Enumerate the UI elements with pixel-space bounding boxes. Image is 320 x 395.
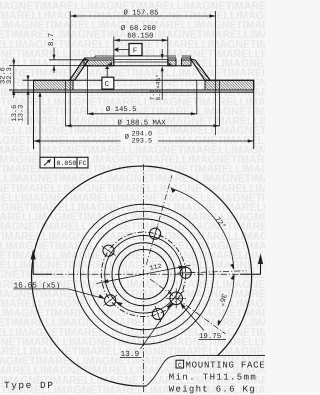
- section wing top line: [23, 79, 254, 81]
- svg-text:Ø: Ø: [125, 134, 129, 142]
- hat top plate right (hatched, bolt hole gap): [168, 58, 191, 66]
- dimension 8.7: [48, 33, 56, 73]
- type label: [4, 380, 54, 391]
- svg-text:72°: 72°: [213, 216, 227, 231]
- chamfer note 7.0/6.5x45: [149, 49, 164, 101]
- svg-text:Ø 145.5: Ø 145.5: [106, 106, 137, 114]
- dimension 13.6/13.3: [11, 75, 30, 125]
- section hat-top extension line: [49, 59, 84, 61]
- left friction wing (hatched): [34, 80, 74, 90]
- pin hole note 13.9: [120, 303, 173, 359]
- locating pin hole Ø13.9: [166, 288, 186, 308]
- centre bore circle Ø68: [119, 249, 169, 299]
- bore chamfer left triangle: [106, 62, 113, 67]
- dimension 32.6/32.3: [0, 58, 15, 98]
- hat mounting face bottom line: [84, 65, 191, 67]
- pin hole note 19.75: [180, 303, 226, 341]
- svg-text:32.3: 32.3: [6, 67, 14, 84]
- svg-text:Ø 188.5 MAX: Ø 188.5 MAX: [118, 119, 167, 127]
- dimension Ø188.5 MAX: [66, 80, 220, 127]
- svg-text:FC: FC: [79, 160, 87, 167]
- svg-text:C: C: [178, 362, 182, 369]
- dimension Ø68.260/68.150: [114, 25, 168, 58]
- bolt hole E (right): [177, 267, 194, 278]
- circle Ø145.5: [88, 219, 199, 330]
- 36 degree angle arc: [216, 274, 234, 327]
- svg-text:0.050: 0.050: [57, 160, 77, 167]
- dimension Ø294.0/293.5: [34, 129, 254, 145]
- svg-text:MOUNTING FACE: MOUNTING FACE: [186, 361, 266, 371]
- svg-text:13.3: 13.3: [17, 105, 25, 122]
- radial centreline -2deg through hole E: [190, 271, 247, 273]
- bolt hole D (bottom): [152, 306, 163, 322]
- dimension Ø145.5: [87, 66, 196, 115]
- centre bore walls: [114, 58, 168, 66]
- svg-text:6.5×45°: 6.5×45°: [155, 74, 162, 100]
- radial centreline 36deg through pin hole: [150, 279, 226, 334]
- hat top plate left (hatched): [84, 58, 114, 66]
- svg-text:68.150: 68.150: [127, 32, 153, 40]
- svg-text:Ø 157.85: Ø 157.85: [124, 10, 159, 18]
- left hat wall (hatched): [70, 59, 89, 81]
- vertical centreline: [143, 164, 145, 392]
- section back-face line: [12, 91, 254, 93]
- bore chamfer silhouette lines: [114, 60, 168, 63]
- 72 degree angle arc: [171, 187, 235, 270]
- section outer edge verticals: [34, 80, 254, 149]
- svg-text:Weight 6.6 Kg: Weight 6.6 Kg: [169, 385, 256, 395]
- bolt hole B (upper left): [102, 245, 116, 256]
- bolt hole A (top): [150, 226, 161, 242]
- svg-text:36°: 36°: [216, 292, 227, 307]
- right friction wing (hatched): [205, 80, 254, 90]
- datum F flag: [114, 44, 142, 56]
- runout tolerance frame 0.050 FC: [39, 92, 89, 168]
- section wing bottom line: [9, 89, 254, 91]
- cutting plane arrow left: [31, 249, 52, 274]
- svg-text:112: 112: [149, 263, 162, 272]
- right hat wall (hatched): [191, 59, 211, 81]
- svg-text:Min. TH11.5mm: Min. TH11.5mm: [169, 373, 257, 383]
- front view outer circle Ø294: [32, 166, 252, 386]
- datum C flag on mounting face: [102, 66, 114, 89]
- circle Ø188.5: [74, 204, 214, 344]
- hub pilot circle: [112, 243, 175, 306]
- svg-text:293.5: 293.5: [132, 137, 153, 145]
- bolt hole diameter note 16.65 (x5): [14, 281, 123, 306]
- svg-text:Type DP: Type DP: [4, 380, 54, 391]
- bolt circle Ø112 (dash-dot): [101, 232, 185, 316]
- horizontal centreline / cutting plane: [33, 273, 260, 275]
- bore chamfer right triangle: [168, 62, 173, 66]
- section mounting-face extension line: [9, 64, 90, 66]
- dimension Ø157.85: [70, 10, 215, 135]
- radial centreline -74deg through hole A: [146, 175, 172, 264]
- cutting plane arrow right: [240, 254, 263, 275]
- svg-text:F: F: [133, 48, 138, 56]
- bolt circle diameter 112 dimension: [96, 263, 190, 284]
- hat raised ring top line: [95, 56, 191, 59]
- mounting face callout: [147, 356, 266, 395]
- bolt hole C (lower left): [104, 295, 117, 306]
- circle Ø168: [81, 211, 207, 337]
- svg-text:8.7: 8.7: [48, 33, 56, 46]
- hub flange circle: [105, 235, 183, 313]
- svg-text:C: C: [105, 80, 110, 89]
